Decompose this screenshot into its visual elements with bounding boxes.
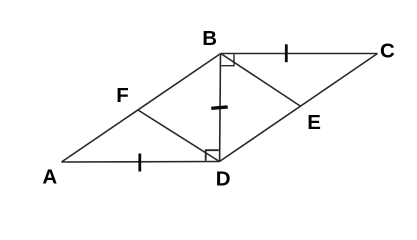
tick on BD: [211, 107, 227, 108]
wire BE: [221, 54, 301, 107]
wire DA: [62, 161, 220, 164]
svg-text:E: E: [307, 111, 321, 134]
wire BC: [221, 53, 378, 55]
right angle mark at B: [221, 54, 234, 65]
right angle mark at D: [206, 150, 219, 161]
svg-text:C: C: [380, 40, 395, 63]
wire CD: [220, 54, 378, 162]
svg-text:B: B: [202, 27, 217, 50]
wire FD: [138, 110, 220, 162]
svg-text:A: A: [42, 165, 57, 188]
tick on BC: [285, 44, 288, 62]
tick on AD: [138, 154, 141, 172]
svg-text:D: D: [216, 168, 231, 191]
wire BD: [219, 54, 222, 162]
svg-text:F: F: [116, 84, 129, 107]
wire AB: [62, 54, 221, 163]
